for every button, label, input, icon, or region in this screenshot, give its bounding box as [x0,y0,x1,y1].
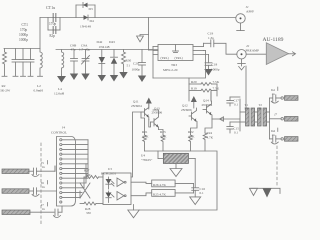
capacitor CT1 bank cap3 [27,49,34,77]
svg-text:3K-2W: 3K-2W [0,89,11,93]
ground C9A [81,74,89,81]
svg-text:2N3904: 2N3904 [131,104,142,108]
wire pin bus verticals [84,140,88,188]
svg-text:1n: 1n [42,207,46,211]
svg-text:0.1: 0.1 [234,103,238,107]
capacitor cable 2 [32,188,57,197]
label CT1 values [19,23,28,42]
wire mixer feed [149,49,154,51]
svg-text:1000p: 1000p [132,68,141,72]
svg-text:MIW-2-20: MIW-2-20 [163,68,178,72]
svg-text:CONTROL: CONTROL [51,131,67,135]
ground U4 (hollow) [170,163,182,176]
transformer T1 [246,108,255,126]
svg-text:1000p: 1000p [19,38,28,42]
svg-text:D42: D42 [97,40,103,44]
svg-text:1N4148: 1N4148 [80,25,91,29]
svg-text:C18: C18 [212,63,218,67]
wire output 2 [270,118,284,120]
ground C18 [204,69,212,76]
svg-text:1.7~40p: 1.7~40p [79,48,90,52]
resistor R24 [203,133,207,151]
cable shield bar left 2 [2,189,33,194]
resistor R27 [84,176,103,179]
svg-text:C20: C20 [133,62,139,66]
wire arrow line [224,118,241,120]
resistor R28 [80,202,103,205]
capacitor C17 [227,97,240,106]
svg-text:1000p: 1000p [211,68,220,72]
svg-text:R21: R21 [142,130,148,134]
inductor L2 [38,49,43,77]
wire mixer left pins [153,47,158,55]
cable shield bar left 1 [2,169,33,174]
capacitor CT1 bank cap2 [20,49,27,77]
svg-text:J4: J4 [62,126,65,130]
svg-text:R20: R20 [191,80,197,84]
svg-text:L4: L4 [58,87,62,91]
svg-text:330: 330 [86,173,91,177]
wire transformer links [240,98,270,139]
svg-text:CT1: CT1 [22,23,29,27]
svg-text:7.5K: 7.5K [213,87,220,91]
svg-text:0.1: 0.1 [234,131,238,135]
diode D4 on main line [84,15,89,20]
svg-text:170p: 170p [49,22,56,26]
cable shield bar left 3 [2,210,54,215]
diode D3 top branch with loop [76,2,95,17]
capacitor C9B [71,50,78,74]
svg-text:P9: P9 [259,107,263,111]
svg-text:TR3: TR3 [171,63,177,67]
svg-text:C19: C19 [208,32,214,36]
ground C9B [70,74,78,81]
op-amp AU-1189 triangle [246,43,295,65]
svg-text:J1: J1 [246,5,250,9]
resistor R21 [143,135,147,151]
wire vertical R19 to Q14 [210,92,212,101]
svg-text:AU-1189: AU-1189 [263,37,284,43]
svg-text:APFF: APFF [246,10,254,14]
svg-text:1n: 1n [42,165,46,169]
wire mid filter rail [56,49,158,51]
capacitor CT1u series pair [48,13,60,34]
svg-text:J2: J2 [246,44,250,48]
ground L4 [57,75,66,83]
svg-text:0.1: 0.1 [200,191,204,195]
wire crossover X [55,166,90,198]
ground D42 [98,75,106,82]
svg-text:R2: R2 [2,84,6,88]
label tick marks [48,87,278,206]
power arrow A [146,98,152,110]
resistor R23 [161,135,165,151]
wire ground bus bottom right [251,188,280,193]
svg-text:330: 330 [86,211,91,215]
svg-text:2N3904: 2N3904 [202,103,213,107]
transistor Q12 [189,108,197,135]
svg-text:"78L05": "78L05" [141,158,153,162]
capacitor C16 [192,188,199,197]
svg-text:R19: R19 [191,87,197,91]
inductor L4 [62,50,64,76]
wire bus mixer down [152,55,154,79]
ground filled bottom right [263,188,272,197]
svg-text:47p: 47p [71,48,76,52]
svg-text:0.9mH: 0.9mH [34,89,44,93]
power arrow B [191,96,197,108]
capacitor cable 1 [32,166,55,177]
ground D43 [110,75,118,82]
connector J4 pins [60,139,88,203]
svg-text:Q12: Q12 [182,104,188,108]
arrow signal left [220,117,224,121]
ground hollow bottom right [250,188,258,195]
diode D43 [111,50,118,76]
svg-text:Q14: Q14 [203,99,209,103]
svg-text:R26 4.7K: R26 4.7K [153,183,166,187]
svg-text:(TRL): (TRL) [161,56,169,60]
dashed shield line right [276,146,278,186]
wire R20/R19 loop [189,78,217,101]
transistor Q14 [203,101,224,133]
connector bar right 3 [285,137,299,142]
capacitor cable 3 [54,206,63,218]
svg-text:L2: L2 [37,84,41,88]
wire left filter rail [4,48,40,50]
svg-text:PREAMP: PREAMP [246,49,260,53]
resistor R2 [2,49,7,77]
capacitor CT1 bank cap1 [12,49,19,77]
ground C20 [138,76,146,83]
transformer mixer TR3 box [158,45,193,61]
wire stub to off-page arrow [140,35,149,37]
wire output 3 [270,136,284,144]
capacitor C18 [205,55,212,70]
resistor R25 (boxed) [150,183,194,196]
svg-text:1n: 1n [42,185,46,189]
wire tee from top line down to mixer [148,18,150,51]
svg-text:1000p: 1000p [19,33,28,37]
svg-text:HCPL2631: HCPL2631 [101,172,116,176]
svg-text:2N3906: 2N3906 [152,111,163,115]
svg-text:D43: D43 [109,40,115,44]
wire coax shield down [245,66,247,108]
capacitor C15 [227,122,240,133]
svg-text:1N4148: 1N4148 [99,45,110,49]
svg-text:4.7K: 4.7K [142,135,149,139]
svg-text:J7: J7 [274,113,277,117]
ground C16 (hollow) [190,197,201,205]
svg-text:170p: 170p [20,28,27,32]
svg-text:(TRL): (TRL) [175,56,183,60]
svg-text:1n: 1n [272,133,276,137]
connector bar right 1 [285,96,299,101]
connector J2 [237,50,246,71]
svg-text:R24: R24 [207,131,213,135]
svg-text:R23: R23 [160,130,166,134]
svg-text:1n: 1n [272,92,276,96]
voltage regulator U4 78L05 [158,151,195,188]
arrow off-page down (hollow) [137,36,144,42]
svg-text:12.6uH: 12.6uH [54,92,65,96]
svg-text:4.7K: 4.7K [207,136,214,140]
resistor R20 [189,83,217,86]
svg-text:2N3906: 2N3906 [181,108,192,112]
wire feed to bias network [153,51,206,79]
transformer T2 [258,108,267,126]
resistor R19 [189,89,217,92]
capacitor C20 [139,50,146,76]
wire output 1 [270,95,284,103]
svg-text:D3: D3 [89,7,93,11]
svg-text:R30: R30 [126,59,132,63]
resistor R30 [122,50,126,73]
resistor R26 (boxed) [150,180,194,187]
svg-text:4.7K: 4.7K [188,135,195,139]
wire U3 outputs [131,182,150,196]
capacitor C9A variable [82,50,90,74]
dashed shield line left [40,143,42,224]
svg-text:Q11: Q11 [133,100,139,104]
wire ground rail and enclosure corner [139,151,217,210]
connector bar right 2 [285,117,299,122]
ground U3 (hollow) [128,205,139,218]
wire mixer right pins [193,43,209,54]
connector J1 [236,14,245,31]
svg-text:CT1u: CT1u [46,5,55,10]
transistor Q11 [131,104,149,177]
svg-text:U4: U4 [141,154,145,158]
connector J4 D-sub body [57,137,76,207]
svg-text:R25 4.7K: R25 4.7K [153,192,166,196]
svg-text:R22: R22 [188,130,194,134]
svg-text:U3: U3 [108,167,112,171]
svg-text:1.3p: 1.3p [208,36,214,40]
resistor R22 [189,135,193,151]
svg-text:82p: 82p [50,34,56,38]
capacitor C19 [204,40,237,54]
ground R30 [119,72,127,79]
svg-text:4.7K: 4.7K [160,135,167,139]
svg-text:7.5K: 7.5K [213,80,220,84]
svg-text:D4: D4 [90,19,94,23]
transistor Q13 [149,110,163,135]
optocoupler U3 HCPL2631 [103,173,131,205]
wire main top line [40,17,236,19]
svg-text:51: 51 [127,64,131,68]
wire corner from top line down to left filter rail [39,18,41,49]
diode D42 [99,50,105,76]
